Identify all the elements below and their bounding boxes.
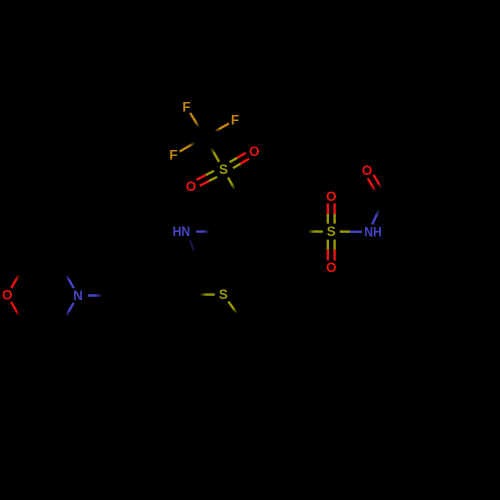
- svg-text:NH: NH: [364, 224, 382, 239]
- bond Nm-Ctr (N half): [60, 265, 74, 288]
- svg-text:O: O: [326, 189, 337, 204]
- bond C10-F3 (F half): [180, 137, 205, 152]
- bond C10-F2 (F half): [205, 124, 229, 138]
- bond S3-phenyl (S half): [228, 302, 243, 322]
- double bond C20=O5 (O halves, fading toward carbonyl C): [368, 178, 381, 200]
- svg-text:S: S: [219, 287, 228, 302]
- bond S2-N2: [340, 230, 350, 232]
- svg-text:O: O: [186, 179, 197, 194]
- double bond S1=O1: [233, 164, 241, 169]
- bond N2-C20 (N half): [372, 199, 384, 225]
- svg-text:F: F: [182, 100, 190, 115]
- svg-text:O: O: [326, 260, 337, 275]
- double bond S2=O4: [327, 240, 329, 250]
- svg-text:O: O: [2, 287, 13, 302]
- bond S3-C1 (S half): [189, 293, 215, 295]
- double bond S1=O2: [206, 171, 214, 175]
- double bond S2=O3: [333, 214, 335, 224]
- svg-text:F: F: [169, 148, 177, 163]
- bond C10-F1 (F half): [190, 113, 205, 137]
- svg-text:HN: HN: [173, 224, 191, 239]
- svg-text:N: N: [73, 288, 83, 303]
- bond Nm-Cbr (N half): [60, 303, 73, 326]
- bond N1-ring (N half): [196, 230, 221, 233]
- bond N1-C2 (N half, mostly hidden under label, very faint): [190, 240, 194, 250]
- svg-text:S: S: [327, 224, 336, 239]
- bond Om-Cbl (O half): [11, 302, 25, 326]
- svg-text:O: O: [249, 144, 260, 159]
- svg-text:O: O: [362, 163, 373, 178]
- bond Om-Ctl (O half): [11, 265, 25, 288]
- bond S1-ring (S half): [228, 178, 240, 199]
- bond S2-ring (S half): [297, 230, 323, 233]
- bond Nm-chain (N half): [88, 294, 114, 296]
- svg-text:S: S: [219, 162, 228, 177]
- svg-text:F: F: [231, 113, 239, 128]
- bond S1-C10 (S half): [205, 137, 219, 162]
